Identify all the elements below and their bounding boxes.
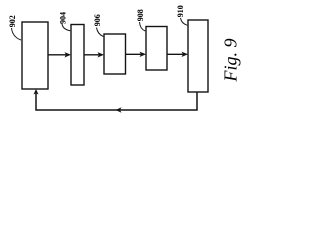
svg-text:906: 906	[93, 14, 102, 26]
arrowhead into 906	[98, 52, 105, 57]
wire 908 to 910	[167, 53, 185, 55]
block 902	[22, 22, 48, 89]
svg-text:908: 908	[136, 9, 145, 21]
svg-text:910: 910	[176, 5, 185, 17]
svg-text:902: 902	[8, 15, 17, 27]
leader line 906	[97, 28, 104, 37]
block 908	[146, 27, 167, 71]
wire 902 to 904	[48, 54, 68, 56]
wire 904 to 906	[84, 54, 101, 56]
wire 906 to 908	[126, 53, 144, 55]
arrowhead into 908	[140, 52, 147, 57]
leader line 904	[62, 24, 70, 31]
leader line 910	[181, 18, 188, 25]
arrowhead into 910	[182, 52, 189, 57]
arrowhead up into 902	[34, 89, 39, 95]
leader line 902	[12, 28, 22, 40]
svg-text:Fig. 9: Fig. 9	[221, 39, 241, 83]
arrowhead into 904	[65, 52, 72, 57]
svg-text:904: 904	[58, 12, 67, 24]
feedback wire from 910 bottom to 902 bottom	[36, 91, 197, 110]
block 904	[71, 25, 84, 86]
block 910	[188, 20, 208, 92]
block 906	[104, 34, 126, 74]
mid-line arrowhead pointing left on feedback wire	[116, 107, 122, 112]
leader line 908	[140, 22, 146, 31]
